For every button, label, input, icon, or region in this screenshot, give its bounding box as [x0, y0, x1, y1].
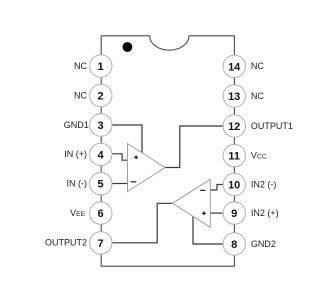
op-amp U1B minus input label	[200, 189, 205, 191]
svg-text:7: 7	[98, 238, 104, 250]
pin 8 circle	[223, 233, 245, 255]
pin 3 circle	[90, 114, 112, 136]
svg-text:IN (+): IN (+)	[64, 149, 87, 159]
svg-text:IN2 (-): IN2 (-)	[251, 179, 277, 189]
svg-text:NC: NC	[251, 61, 264, 71]
svg-text:GND2: GND2	[251, 239, 276, 249]
svg-text:6: 6	[98, 208, 104, 220]
svg-text:OUTPUT2: OUTPUT2	[45, 238, 87, 248]
wire A2 + input to pin9 (IN2 +)	[210, 212, 223, 214]
pin 9 circle	[223, 202, 245, 224]
pin 5 circle	[90, 173, 112, 195]
pin 1 circle	[90, 55, 112, 77]
pin 10 circle	[223, 173, 245, 195]
svg-text:2: 2	[98, 91, 104, 103]
wire pin8 (GND2) to op-amp A2 bottom edge	[193, 216, 223, 244]
op-amp U1A minus input label	[131, 181, 137, 183]
svg-text:IN2 (+): IN2 (+)	[251, 208, 279, 218]
svg-text:GND1: GND1	[64, 120, 89, 130]
pin 7 circle	[90, 232, 112, 254]
svg-text:8: 8	[231, 239, 237, 251]
svg-text:1: 1	[98, 61, 104, 73]
svg-text:12: 12	[228, 121, 240, 133]
wire A1 output to pin12 (OUTPUT1)	[165, 126, 223, 168]
pin 14 circle	[223, 55, 245, 77]
pin 4 circle	[90, 143, 112, 165]
svg-text:5: 5	[98, 179, 104, 191]
pin 12 circle	[223, 115, 245, 137]
svg-text:14: 14	[228, 61, 241, 73]
op-amp U1B plus input label	[202, 211, 206, 215]
pin 11 circle	[223, 144, 245, 166]
op-amp U1A triangle	[128, 144, 166, 192]
svg-text:10: 10	[228, 180, 240, 192]
svg-text:NC: NC	[74, 61, 87, 71]
svg-text:9: 9	[231, 208, 237, 220]
wire A2 output to pin7 (OUTPUT2)	[112, 203, 173, 243]
svg-text:IN (-): IN (-)	[67, 179, 88, 189]
wire pin3 to op-amp A1 top edge (GND1)	[112, 125, 142, 153]
svg-text:OUTPUT1: OUTPUT1	[251, 121, 293, 131]
op-amp U1A plus input label	[134, 155, 138, 159]
wire pin5 to op-amp A1 - input	[112, 183, 128, 185]
IC package U1 body outline with notch	[101, 36, 234, 266]
pin 13 circle	[223, 85, 245, 107]
pin 2 circle	[90, 84, 112, 106]
pin 1 indicator dot	[123, 42, 133, 52]
svg-text:11: 11	[228, 151, 240, 163]
op-amp U1B triangle	[173, 179, 211, 227]
wire A2 - input to pin10 (IN2 -)	[210, 185, 223, 191]
pin 6 circle	[90, 202, 112, 224]
wire pin4 to op-amp A1 + input	[112, 154, 128, 160]
svg-text:3: 3	[98, 120, 104, 132]
svg-text:NC: NC	[74, 90, 87, 100]
svg-text:4: 4	[98, 149, 105, 161]
svg-text:NC: NC	[251, 91, 264, 101]
svg-text:13: 13	[228, 91, 240, 103]
